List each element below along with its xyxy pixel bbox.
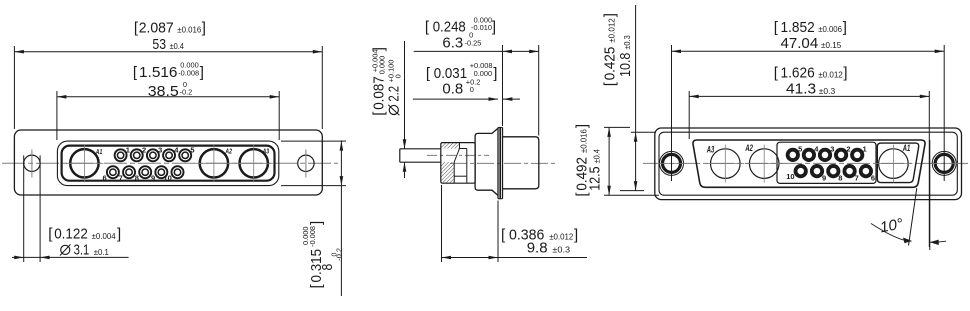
svg-text:10: 10 (786, 172, 794, 181)
insulator top strip edge (459, 143, 461, 149)
front pin 2 (131, 149, 143, 161)
svg-text:10.8: 10.8 (617, 53, 634, 77)
rear pin 3 label (830, 144, 834, 153)
dim 10.8 text inches vertical (602, 13, 619, 86)
dim 12.5 text inches vertical (573, 124, 590, 197)
svg-text:]: ] (843, 64, 847, 81)
svg-text:8: 8 (135, 173, 139, 182)
dim 9.8 text inches (501, 227, 578, 244)
dim 38.5 text mm (148, 80, 192, 100)
front pin 10 label (164, 173, 172, 182)
dim 2.2 text inches vertical (370, 47, 387, 116)
svg-text:0.122: 0.122 (54, 226, 88, 243)
dim 10.8 extension lines (620, 132, 656, 190)
svg-text:2.2: 2.2 (386, 86, 403, 102)
svg-text:0: 0 (393, 74, 402, 78)
svg-text:6: 6 (871, 174, 875, 183)
rear pin 2 (835, 148, 848, 161)
left view flange outline (14, 130, 322, 195)
svg-text:±0.004: ±0.004 (92, 231, 116, 241)
dim 10.8 text mm vertical (617, 35, 634, 77)
front pin 7 (123, 166, 135, 178)
front contact label A3 (262, 149, 269, 156)
rear pin 4 label (814, 144, 819, 153)
dim 12.5 line (607, 127, 611, 195)
svg-text:-0.008: -0.008 (308, 226, 317, 247)
rear pin 6 (859, 165, 872, 178)
dim 47.04 text mm (781, 35, 842, 52)
dim 47.04 extension lines (672, 45, 945, 181)
svg-text:0.248: 0.248 (433, 19, 466, 36)
rear shell body (503, 137, 539, 189)
svg-text:1.626: 1.626 (781, 64, 815, 81)
rear pin 8 (827, 165, 840, 178)
front pin 6 label (103, 173, 107, 182)
right view flange outline (655, 128, 962, 200)
svg-text:±0.012: ±0.012 (818, 70, 843, 80)
svg-text:]: ] (492, 19, 496, 36)
dim 53 line (14, 50, 322, 54)
svg-text:5: 5 (190, 146, 194, 155)
front pin 9 label (151, 173, 155, 182)
dim 0.8 text mm (442, 77, 480, 97)
svg-text:]: ] (843, 19, 847, 36)
rear pin 9 (810, 165, 823, 178)
rear coax contact A2 (745, 145, 783, 183)
front pin 7 label (119, 173, 123, 182)
svg-text:±0.15: ±0.15 (821, 40, 841, 50)
rear pin 10 label (786, 172, 794, 181)
rear mounting hole 2 (928, 151, 960, 175)
svg-text:9.8: 9.8 (527, 239, 548, 256)
svg-text:]: ] (574, 227, 578, 244)
front contact label A1 (95, 149, 102, 156)
svg-text:3: 3 (158, 146, 162, 155)
dim 38.5 line (57, 95, 279, 99)
rear pin 7 (843, 165, 856, 178)
svg-text:A3: A3 (262, 149, 269, 156)
dim 53 text inches (134, 19, 206, 36)
dim 2.2 text mm vertical (386, 60, 403, 116)
dim 9.8 extension lines (442, 185, 499, 262)
rear pin 9 label (822, 174, 826, 183)
svg-text:38.5: 38.5 (148, 83, 179, 100)
dim 6.3 text mm (442, 31, 481, 52)
dim 6.3 line (414, 50, 539, 54)
dim 0.8 line (413, 97, 520, 101)
svg-text:53: 53 (152, 36, 166, 53)
dim 38.5 text inches (133, 61, 204, 81)
svg-text:2: 2 (142, 146, 146, 155)
right view inner body outline (659, 132, 957, 195)
rear pin 4 (802, 148, 815, 161)
front pin 3 (147, 149, 159, 161)
svg-text:±0.3: ±0.3 (819, 86, 836, 96)
svg-text:0.8: 0.8 (442, 81, 463, 98)
svg-text:A1: A1 (902, 143, 910, 153)
dim 12.5 extension lines (604, 127, 659, 195)
front pin 5 label (190, 146, 194, 155)
rear pin 10 (794, 165, 807, 178)
svg-text:A2: A2 (225, 149, 232, 156)
front pin 3 label (158, 146, 162, 155)
svg-text:]: ] (371, 47, 388, 51)
left mounting hole R (298, 155, 314, 171)
front D-opening outer outline (57, 141, 278, 186)
svg-text:]: ] (117, 226, 121, 243)
svg-text:±0.006: ±0.006 (818, 24, 842, 34)
svg-text:8: 8 (319, 264, 336, 271)
svg-text:A1: A1 (95, 149, 102, 156)
svg-text:12.5: 12.5 (587, 166, 604, 190)
svg-text:]: ] (308, 221, 325, 225)
10 degree vertical reference line (929, 140, 931, 250)
svg-text:6: 6 (103, 173, 107, 182)
svg-text:9: 9 (822, 174, 826, 183)
rear pin 5 label (798, 144, 802, 153)
svg-text:1: 1 (863, 144, 867, 153)
front coax contact A3 (235, 144, 273, 182)
svg-text:±0.016: ±0.016 (579, 129, 589, 153)
svg-text:47.04: 47.04 (781, 35, 819, 52)
10 degree slant reference line (909, 188, 917, 246)
front pin 4 (163, 149, 175, 161)
svg-text:±0.4: ±0.4 (592, 149, 602, 163)
dim 3.1 text inches (48, 226, 121, 243)
left mounting hole L vertical crosshair (31, 150, 33, 178)
svg-text:0.000: 0.000 (377, 56, 386, 75)
rear mounting hole 1 (656, 151, 688, 175)
svg-text:±0.016: ±0.016 (177, 25, 201, 35)
insulator section hatching (441, 143, 460, 183)
dim 12.5 text mm vertical (587, 149, 604, 191)
svg-text:41.3: 41.3 (786, 81, 816, 98)
svg-text:3: 3 (830, 144, 834, 153)
svg-text:1: 1 (126, 146, 130, 155)
left view horizontal centerline (2, 162, 338, 164)
dim 9.8 text mm (527, 239, 571, 256)
dim 3.1 text mm (60, 242, 109, 259)
dim 38.5 extension lines (57, 91, 279, 140)
svg-text:7: 7 (119, 173, 123, 182)
dim 10.8 line (634, 5, 638, 191)
svg-text:-0.2: -0.2 (180, 88, 193, 97)
rear contact label A1 (902, 143, 910, 153)
front pin 1 (115, 149, 127, 161)
svg-text:A2: A2 (745, 143, 753, 153)
10 degree text (879, 215, 905, 236)
front pin 10 (172, 166, 184, 178)
svg-text:-0.010: -0.010 (471, 23, 492, 32)
svg-text:]: ] (573, 124, 590, 128)
svg-text:]: ] (493, 65, 497, 82)
right view horizontal centerline (643, 162, 968, 164)
rear coax contact A1 (874, 145, 912, 183)
front pin 8 label (135, 173, 139, 182)
rear pin 5 (786, 148, 799, 161)
rear D-cavity outline (693, 140, 925, 187)
svg-text:1.516: 1.516 (139, 64, 178, 81)
rear pin panel outline (777, 142, 876, 183)
front pin 1 label (126, 146, 130, 155)
svg-text:±0.3: ±0.3 (622, 35, 632, 49)
svg-text:-0.25: -0.25 (465, 39, 482, 48)
middle view pin centerline (427, 154, 489, 156)
front D-opening inner bold outline (62, 146, 275, 181)
rear pin 1 (851, 148, 864, 161)
front coax contact A2 (195, 144, 233, 182)
front pin 2 label (142, 146, 146, 155)
rear pin 7 label (855, 174, 859, 183)
front pin 9 (155, 166, 167, 178)
dim 6.3 text inches (425, 15, 496, 35)
svg-text:-0.2: -0.2 (335, 248, 344, 261)
dim 53 extension lines (14, 46, 322, 129)
contact tail tube (400, 149, 441, 162)
dim 2.2 line (403, 41, 407, 178)
front pin 8 (139, 166, 151, 178)
svg-text:1.852: 1.852 (781, 19, 815, 36)
front pin 6 (107, 166, 119, 178)
10 degree arc (871, 224, 946, 246)
svg-text:-0.008: -0.008 (178, 68, 199, 77)
front pin 5 (179, 149, 191, 161)
svg-text:2.087: 2.087 (139, 19, 174, 36)
svg-text:10: 10 (164, 173, 172, 182)
rear A1 panel outline (877, 143, 918, 183)
svg-text:±0.4: ±0.4 (170, 41, 184, 51)
dim 0.8 text inches (426, 61, 497, 82)
svg-text:7: 7 (855, 174, 859, 183)
svg-text:0: 0 (470, 85, 474, 94)
dim 8 line (340, 140, 344, 296)
front contact label A2 (225, 149, 232, 156)
svg-text:±0.1: ±0.1 (94, 247, 109, 257)
contact taper line (454, 149, 459, 163)
svg-text:6.3: 6.3 (442, 34, 463, 51)
dim 8 extension lines (281, 141, 346, 186)
front coax contact A1 (65, 144, 103, 182)
dim 47.04 line (672, 50, 945, 54)
insulator inner divider (466, 149, 468, 184)
rear pin 6 label (871, 174, 875, 183)
svg-text:]: ] (602, 13, 619, 17)
svg-text:]: ] (200, 64, 204, 81)
middle view main centerline (450, 162, 558, 164)
left mounting hole L (24, 155, 40, 171)
left mounting hole R vertical crosshair (305, 150, 307, 178)
svg-text:±0.012: ±0.012 (549, 232, 573, 242)
rear pin 8 label (838, 174, 842, 183)
insulator assembly outline (441, 143, 475, 184)
rear coax contact A3 (706, 145, 744, 183)
svg-text:5: 5 (798, 144, 802, 153)
rear contact label A2 (745, 143, 753, 153)
dim 8 text inches vertical (301, 221, 325, 289)
shell front body (475, 128, 498, 195)
dim 41.3 text inches (774, 64, 848, 81)
svg-text:9: 9 (151, 173, 155, 182)
svg-text:2: 2 (846, 144, 850, 153)
dim 3.1 line (12, 256, 129, 260)
flange plate side view (498, 128, 503, 199)
rear pin 2 label (846, 144, 850, 153)
dim 41.3 extension lines (689, 91, 929, 247)
svg-text:3.1: 3.1 (74, 242, 90, 259)
dim 41.3 line (689, 95, 929, 99)
svg-text:±0.3: ±0.3 (552, 245, 570, 255)
insulator bottom block edge (453, 162, 455, 183)
svg-text:0.031: 0.031 (434, 65, 467, 82)
dim 3.1 extension lines (24, 155, 40, 262)
dim 47.04 text inches (774, 19, 847, 36)
dim 8 text mm vertical (319, 248, 344, 271)
svg-text:A3: A3 (706, 145, 714, 155)
dim 53 text mm (152, 36, 184, 53)
rear pin 3 (818, 148, 831, 161)
svg-text:0.425: 0.425 (602, 47, 619, 81)
insulator internal lines (454, 149, 467, 177)
dim 6.3 extension lines (503, 45, 539, 136)
svg-text:8: 8 (838, 174, 842, 183)
dim 41.3 text mm (786, 81, 835, 98)
dim 9.8 line (442, 256, 588, 260)
rear contact label A3 (706, 145, 714, 155)
svg-text:±0.012: ±0.012 (607, 18, 617, 43)
front pin 4 label (174, 146, 179, 155)
svg-text:]: ] (202, 19, 206, 36)
rear pin 1 label (863, 144, 867, 153)
